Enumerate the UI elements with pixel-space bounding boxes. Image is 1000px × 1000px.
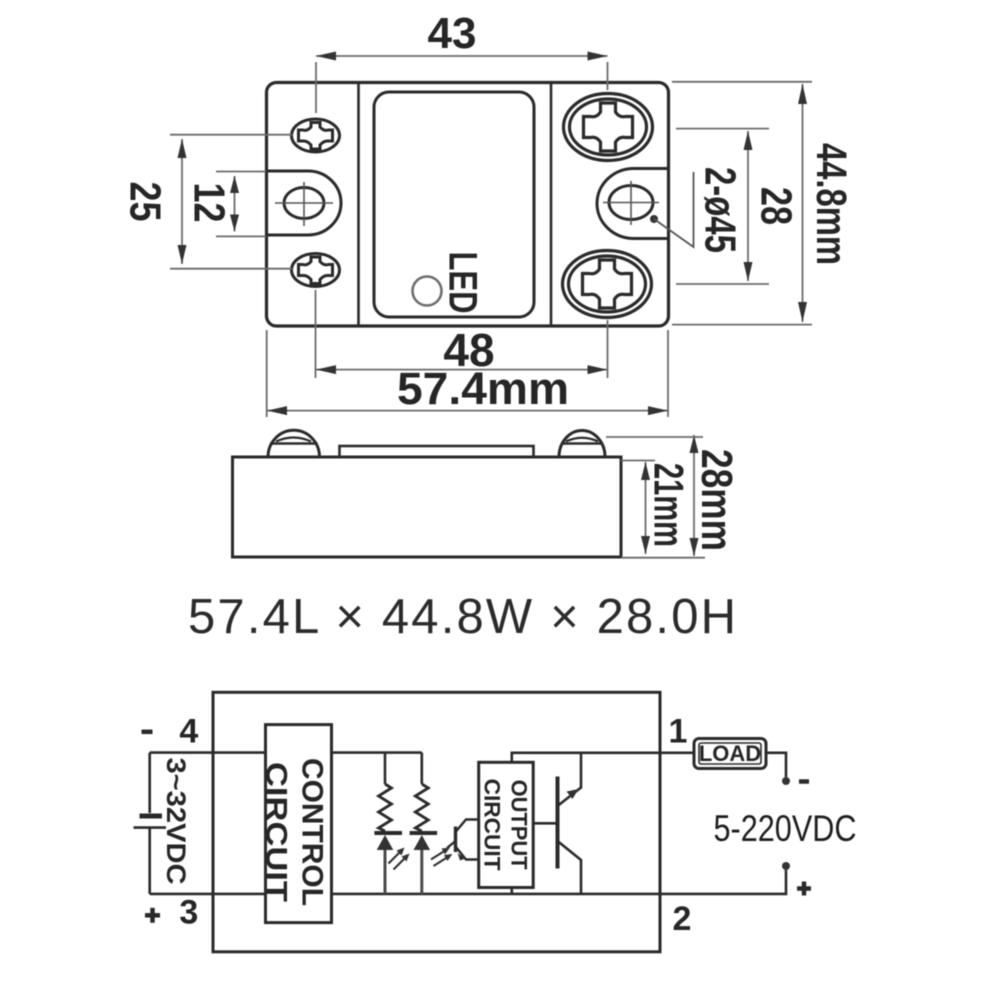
battery cell (140, 814, 163, 819)
LED D1 lead (384, 850, 387, 894)
dimension 21mm (645, 462, 647, 554)
svg-text:25: 25 (121, 182, 170, 222)
svg-text:CIRCUIT: CIRCUIT (260, 762, 293, 902)
screw T4 top-left (292, 119, 340, 152)
relay body outline (267, 83, 669, 327)
resistor R2 branch (420, 753, 423, 784)
wire left terminal separator (357, 83, 360, 327)
wire control to LED branches top (332, 751, 422, 754)
wire right terminal separator (550, 83, 553, 327)
dimension 25 left (181, 139, 183, 264)
svg-text:44.8mm: 44.8mm (807, 143, 855, 265)
svg-text:21mm: 21mm (645, 463, 692, 547)
minus terminal dot (782, 777, 790, 785)
dimension 43 top (316, 55, 608, 57)
right hole crosshair (603, 202, 659, 204)
label OUTPUT CIRCUIT (480, 779, 532, 872)
svg-text:1: 1 (669, 712, 688, 750)
LED D1 cathode bar (374, 831, 402, 835)
svg-text:2: 2 (673, 900, 692, 938)
wire output box to transistor base (533, 822, 557, 825)
svg-text:3: 3 (179, 894, 198, 932)
relay outline box (213, 692, 660, 952)
left mounting hole (284, 188, 324, 219)
wire bottom rail (332, 893, 661, 896)
right mounting hole (609, 186, 653, 220)
optocoupler light arrows (431, 850, 449, 866)
plus terminal dot (782, 862, 790, 870)
LED D1 triangle (377, 835, 394, 850)
control circuit block (266, 725, 332, 923)
LED D2 triangle (414, 835, 431, 850)
svg-text:43: 43 (428, 9, 477, 58)
svg-text:CONTROL: CONTROL (296, 758, 329, 906)
right screw dome (559, 431, 605, 458)
plus sign output (797, 886, 811, 891)
svg-text:28mm: 28mm (692, 449, 741, 551)
plus sign input (145, 913, 160, 918)
svg-text:5-220VDC: 5-220VDC (714, 808, 857, 849)
leader dot for 2-ø45 (650, 215, 658, 223)
wire load to minus terminal (766, 753, 786, 777)
left mounting tab (267, 171, 342, 235)
svg-text:LOAD: LOAD (699, 741, 761, 766)
svg-text:28: 28 (752, 187, 801, 225)
wire output box top stub (512, 753, 660, 763)
minus sign output (799, 779, 809, 784)
minus sign input (142, 730, 153, 735)
screw T1 top-right (564, 94, 653, 161)
transistor Q2 (556, 777, 560, 869)
resistor R1 branch (384, 753, 387, 784)
screw T2 bottom-right (563, 251, 652, 318)
svg-text:12: 12 (185, 183, 234, 223)
svg-text:57.4mm: 57.4mm (397, 363, 569, 414)
LED D2 lead (420, 850, 423, 894)
wire terminal3 to control (150, 893, 266, 896)
svg-text:LED: LED (441, 252, 485, 314)
phototransistor Q1 (454, 827, 457, 853)
wire output box bottom stub (510, 888, 513, 894)
output circuit block (479, 762, 534, 887)
left hole crosshair (275, 202, 333, 204)
svg-text:2-ø45: 2-ø45 (696, 167, 745, 253)
LED D1 light arrows (389, 851, 407, 870)
dimension 12 left (234, 176, 236, 232)
LED indicator circle (413, 277, 442, 306)
label CONTROL CIRCUIT (260, 758, 329, 906)
dimension 28mm (693, 435, 695, 556)
screw T3 bottom-left (292, 254, 340, 287)
svg-text:OUTPUT: OUTPUT (507, 780, 532, 871)
leader line for 2-ø45 (654, 172, 694, 247)
svg-text:4: 4 (179, 713, 198, 751)
wire battery vertical (148, 753, 151, 813)
dimension 44.8mm right (802, 84, 804, 322)
side body (233, 457, 622, 557)
load box (694, 739, 766, 769)
dimension 48 bottom (316, 369, 608, 371)
relay cover inner rounded rectangle (374, 92, 534, 317)
wire to load (660, 751, 694, 754)
left screw dome (268, 430, 320, 457)
dimension 28 right (747, 131, 749, 281)
dimension 57.4mm bottom (267, 410, 668, 412)
LED D2 cathode bar (410, 831, 438, 835)
wire plus terminal to terminal2 (660, 870, 786, 894)
top cover ridge (340, 446, 534, 457)
svg-text:3~32VDC: 3~32VDC (161, 758, 191, 885)
right mounting tab (597, 169, 669, 239)
wire terminal4 to control (150, 751, 266, 754)
svg-text:CIRCUIT: CIRCUIT (480, 779, 505, 872)
